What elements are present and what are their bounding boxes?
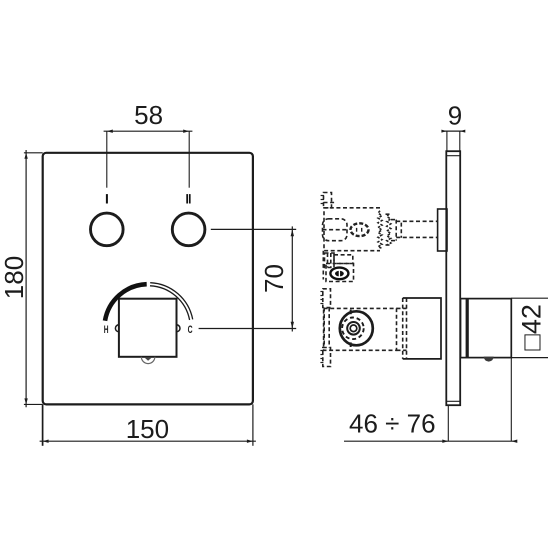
svg-text:□42: □42 [517,304,547,350]
svg-text:180: 180 [0,256,29,299]
svg-text:9: 9 [448,100,462,130]
svg-text:H: H [104,324,109,336]
svg-text:46 ÷ 76: 46 ÷ 76 [349,409,436,439]
svg-text:150: 150 [126,414,169,444]
svg-text:58: 58 [134,100,163,130]
svg-text:C: C [188,324,193,336]
svg-text:70: 70 [259,264,289,293]
